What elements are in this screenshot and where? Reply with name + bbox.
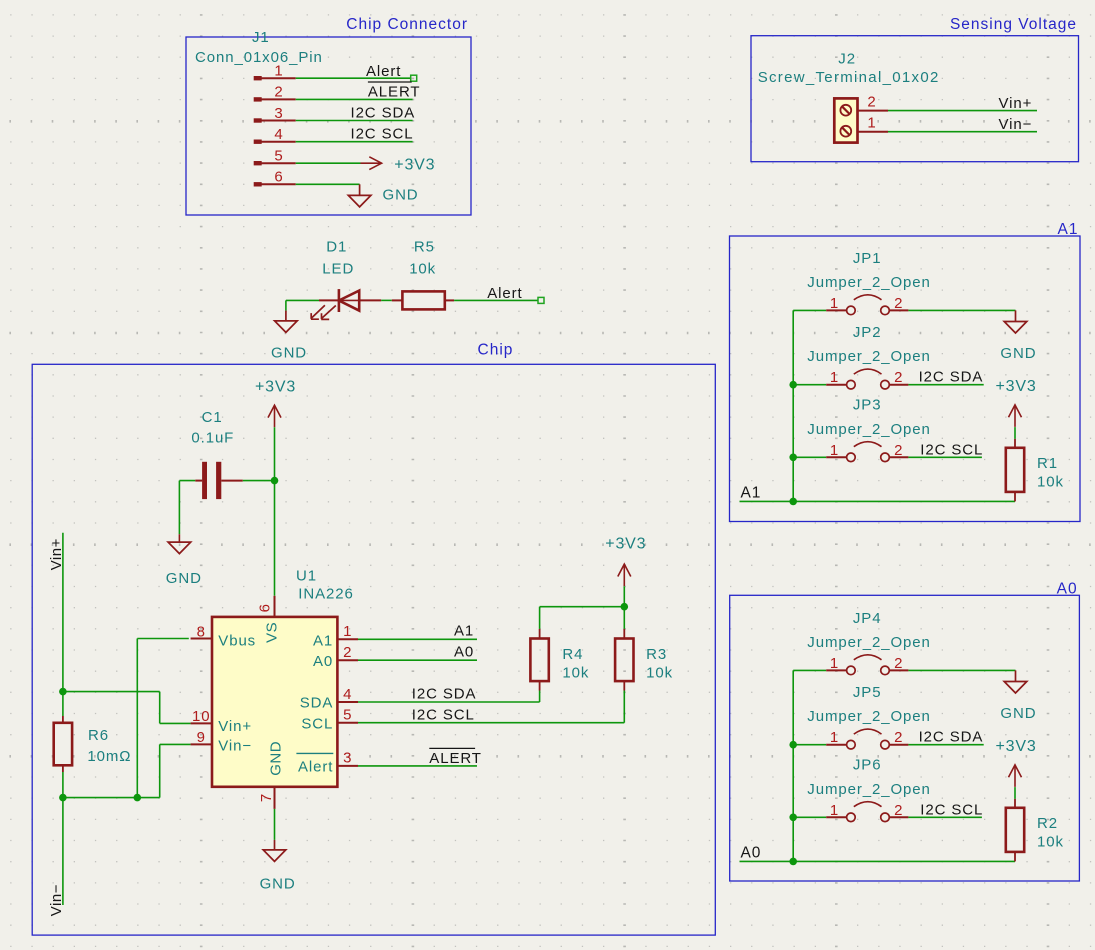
svg-text:Jumper_2_Open: Jumper_2_Open	[807, 421, 930, 438]
svg-text:SDA: SDA	[300, 695, 334, 712]
svg-text:JP4: JP4	[853, 610, 882, 627]
svg-text:Jumper_2_Open: Jumper_2_Open	[807, 708, 930, 725]
svg-text:VS: VS	[264, 622, 281, 643]
svg-text:2: 2	[894, 802, 903, 819]
svg-text:2: 2	[894, 655, 903, 672]
svg-text:6: 6	[274, 169, 283, 186]
svg-text:+3V3: +3V3	[394, 157, 435, 174]
svg-text:Alert: Alert	[298, 759, 333, 776]
svg-text:GND: GND	[383, 187, 419, 204]
svg-text:1: 1	[343, 623, 352, 640]
svg-text:I2C SCL: I2C SCL	[412, 706, 475, 723]
svg-text:D1: D1	[326, 239, 347, 256]
svg-text:1: 1	[867, 115, 876, 132]
svg-text:R1: R1	[1037, 455, 1058, 472]
svg-text:JP3: JP3	[853, 397, 882, 414]
svg-text:1: 1	[830, 295, 839, 312]
svg-text:Vin−: Vin−	[48, 884, 65, 916]
svg-text:Vbus: Vbus	[218, 632, 256, 649]
svg-text:+3V3: +3V3	[996, 738, 1037, 755]
svg-text:JP6: JP6	[853, 757, 882, 774]
svg-text:C1: C1	[202, 409, 223, 426]
svg-text:Jumper_2_Open: Jumper_2_Open	[807, 634, 930, 651]
svg-text:0.1uF: 0.1uF	[191, 430, 234, 447]
svg-text:Vin+: Vin+	[999, 95, 1033, 112]
svg-text:R6: R6	[88, 727, 109, 744]
svg-text:A0: A0	[454, 644, 474, 661]
svg-text:1: 1	[830, 729, 839, 746]
svg-text:SCL: SCL	[301, 715, 333, 732]
svg-text:Vin−: Vin−	[999, 116, 1033, 133]
svg-text:Alert: Alert	[366, 63, 401, 80]
svg-text:10k: 10k	[409, 261, 436, 278]
svg-text:8: 8	[197, 623, 206, 640]
svg-text:GND: GND	[1000, 705, 1036, 722]
svg-text:JP1: JP1	[853, 250, 882, 267]
svg-text:J1: J1	[252, 29, 270, 46]
svg-text:I2C SDA: I2C SDA	[919, 369, 984, 386]
svg-text:10k: 10k	[646, 665, 673, 682]
svg-text:Vin−: Vin−	[218, 738, 252, 755]
svg-text:ALERT: ALERT	[368, 84, 421, 101]
svg-text:ALERT: ALERT	[429, 750, 482, 767]
svg-text:GND: GND	[268, 741, 285, 776]
svg-text:I2C SDA: I2C SDA	[412, 686, 477, 703]
svg-text:R5: R5	[414, 239, 435, 256]
svg-text:2: 2	[343, 644, 352, 661]
svg-text:+3V3: +3V3	[996, 378, 1037, 395]
svg-text:A1: A1	[313, 632, 333, 649]
svg-text:Jumper_2_Open: Jumper_2_Open	[807, 274, 930, 291]
svg-text:2: 2	[894, 442, 903, 459]
svg-text:10k: 10k	[1037, 833, 1064, 850]
svg-text:GND: GND	[260, 875, 296, 892]
svg-text:GND: GND	[271, 344, 307, 361]
svg-text:R2: R2	[1037, 815, 1058, 832]
svg-text:GND: GND	[166, 570, 202, 587]
svg-text:A1: A1	[1058, 221, 1079, 238]
svg-text:10: 10	[192, 708, 211, 725]
svg-text:2: 2	[274, 84, 283, 101]
svg-text:I2C SCL: I2C SCL	[920, 801, 983, 818]
svg-text:7: 7	[258, 793, 275, 802]
svg-text:2: 2	[894, 369, 903, 386]
svg-text:10mΩ: 10mΩ	[87, 748, 131, 765]
svg-text:2: 2	[894, 295, 903, 312]
svg-text:I2C SCL: I2C SCL	[351, 126, 414, 143]
svg-text:10k: 10k	[1037, 473, 1064, 490]
svg-text:1: 1	[830, 442, 839, 459]
svg-text:3: 3	[343, 750, 352, 767]
svg-text:Chip: Chip	[478, 342, 514, 359]
svg-text:10k: 10k	[562, 665, 589, 682]
svg-text:1: 1	[830, 802, 839, 819]
svg-text:U1: U1	[296, 568, 317, 585]
svg-text:1: 1	[830, 655, 839, 672]
svg-text:3: 3	[274, 105, 283, 122]
svg-text:INA226: INA226	[298, 586, 353, 603]
svg-text:I2C SDA: I2C SDA	[351, 105, 416, 122]
svg-text:A1: A1	[454, 623, 474, 640]
svg-text:I2C SDA: I2C SDA	[919, 729, 984, 746]
svg-text:Screw_Terminal_01x02: Screw_Terminal_01x02	[758, 69, 940, 86]
svg-text:LED: LED	[322, 261, 354, 278]
svg-text:A0: A0	[1057, 581, 1078, 598]
svg-text:5: 5	[274, 148, 283, 165]
svg-text:4: 4	[343, 686, 352, 703]
svg-text:Jumper_2_Open: Jumper_2_Open	[807, 781, 930, 798]
svg-text:I2C SCL: I2C SCL	[920, 441, 983, 458]
svg-text:5: 5	[343, 707, 352, 724]
svg-text:A1: A1	[741, 485, 762, 502]
svg-text:Vin+: Vin+	[218, 718, 252, 735]
svg-text:Conn_01x06_Pin: Conn_01x06_Pin	[195, 49, 323, 66]
svg-text:GND: GND	[1000, 345, 1036, 362]
svg-text:JP2: JP2	[853, 324, 882, 341]
svg-text:R4: R4	[562, 646, 583, 663]
svg-text:+3V3: +3V3	[605, 536, 646, 553]
svg-text:Alert: Alert	[487, 285, 522, 302]
svg-text:1: 1	[274, 63, 283, 80]
svg-text:9: 9	[197, 729, 206, 746]
svg-text:2: 2	[867, 94, 876, 111]
svg-text:1: 1	[830, 369, 839, 386]
svg-text:J2: J2	[838, 50, 856, 67]
svg-text:Sensing Voltage: Sensing Voltage	[950, 16, 1077, 33]
svg-text:A0: A0	[741, 845, 762, 862]
svg-text:JP5: JP5	[853, 684, 882, 701]
svg-text:Chip Connector: Chip Connector	[346, 16, 468, 33]
svg-text:+3V3: +3V3	[255, 379, 296, 396]
svg-text:4: 4	[274, 126, 283, 143]
svg-text:A0: A0	[313, 653, 333, 670]
svg-text:6: 6	[257, 604, 274, 613]
svg-text:2: 2	[894, 729, 903, 746]
svg-text:R3: R3	[646, 646, 667, 663]
svg-text:Jumper_2_Open: Jumper_2_Open	[807, 348, 930, 365]
